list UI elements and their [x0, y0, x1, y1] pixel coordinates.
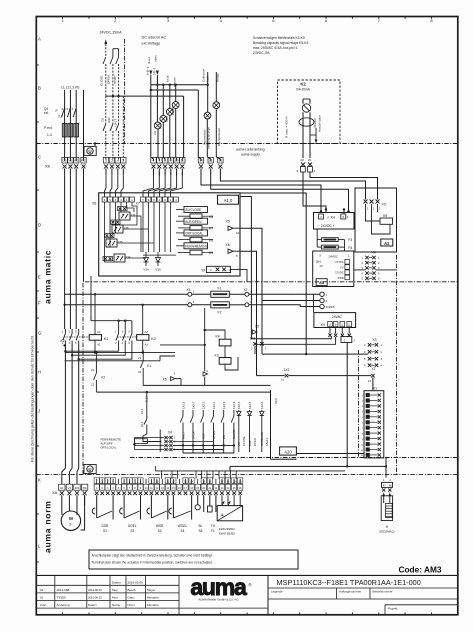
- svg-text:3/4/5/6: 3/4/5/6: [326, 305, 336, 309]
- svg-text:PWB: PWB: [338, 276, 344, 280]
- svg-text:XH: XH: [321, 323, 326, 327]
- svg-text:10: 10: [175, 159, 179, 163]
- svg-text:X3: X3: [372, 338, 376, 342]
- svg-text:ext.Voltage: ext.Voltage: [142, 41, 161, 45]
- svg-text:K1: K1: [147, 364, 151, 368]
- svg-text:10,2: 10,2: [140, 421, 144, 427]
- svg-text:DC oder/or AC: DC oder/or AC: [142, 36, 167, 40]
- svg-text:X5: X5: [163, 377, 167, 381]
- svg-text:F4: F4: [348, 246, 352, 250]
- svg-text:ORT/LOCAL: ORT/LOCAL: [185, 232, 203, 236]
- svg-text:1X2,8: 1X2,8: [181, 401, 185, 409]
- svg-text:auma norm: auma norm: [43, 500, 53, 553]
- svg-text:Projekt: Projekt: [388, 607, 398, 611]
- svg-text:1X2,2: 1X2,2: [212, 401, 216, 409]
- svg-text:W1: W1: [74, 159, 79, 163]
- svg-text:2014-08-04: 2014-08-04: [88, 588, 102, 592]
- svg-text:1X2,9: 1X2,9: [232, 401, 236, 409]
- svg-text:21: 21: [91, 368, 95, 372]
- svg-text:Montaire: Montaire: [147, 603, 159, 607]
- svg-text:S1: S1: [103, 529, 107, 533]
- svg-text:XK: XK: [45, 164, 51, 169]
- svg-text:FAULT: FAULT: [265, 437, 269, 446]
- svg-text:F1: F1: [211, 529, 215, 533]
- svg-text:Meyer: Meyer: [147, 588, 155, 592]
- svg-text:PE: PE: [81, 159, 85, 163]
- svg-text:17VDC: 17VDC: [335, 271, 343, 275]
- svg-text:K8: K8: [209, 215, 213, 219]
- svg-text:TH: TH: [211, 524, 216, 528]
- svg-text:Änderung: Änderung: [57, 603, 70, 607]
- svg-text:24: 24: [308, 158, 312, 162]
- svg-text:A8: A8: [319, 280, 325, 285]
- svg-text:STOP: STOP: [191, 431, 195, 439]
- svg-text:auma-Lieferumfang: auma-Lieferumfang: [236, 148, 265, 152]
- svg-text:2014-088: 2014-088: [57, 588, 70, 592]
- svg-text:X5: X5: [255, 325, 259, 329]
- svg-text:close: close: [147, 56, 151, 64]
- svg-text:X1: X1: [187, 288, 191, 292]
- svg-text:733/09: 733/09: [57, 596, 67, 600]
- svg-text:FERN/REMOTE: FERN/REMOTE: [185, 244, 208, 248]
- svg-text:1X2,4: 1X2,4: [237, 401, 241, 409]
- svg-text:2016-05-06: 2016-05-06: [128, 580, 144, 584]
- svg-text:AUF: AUF: [107, 117, 111, 123]
- svg-text:meldung/anzeige: meldung/anzeige: [206, 127, 210, 149]
- svg-text:R max. = 600 R: R max. = 600 R: [285, 116, 289, 138]
- svg-text:(+)(~): (+)(~): [146, 67, 150, 75]
- svg-text:ZU: ZU: [100, 118, 104, 122]
- svg-text:Zust.: Zust.: [40, 603, 47, 607]
- svg-text:1X2,6: 1X2,6: [260, 401, 264, 409]
- svg-text:EWG B1/B2: EWG B1/B2: [219, 531, 236, 535]
- svg-text:HALT: HALT: [181, 432, 185, 439]
- svg-text:A20: A20: [284, 450, 292, 455]
- svg-text:A2: A2: [145, 330, 149, 334]
- svg-text:1X2,7: 1X2,7: [191, 401, 195, 409]
- svg-text:Auftragsnummer: Auftragsnummer: [339, 590, 361, 594]
- svg-text:OPEN: OPEN: [212, 431, 216, 439]
- svg-text:K2: K2: [300, 82, 306, 87]
- svg-text:Actual value: Actual value: [318, 115, 322, 132]
- svg-text:Code: AM3: Code: AM3: [398, 564, 441, 574]
- svg-text:XA: XA: [52, 490, 58, 495]
- svg-text:Mey: Mey: [112, 588, 118, 592]
- svg-text:STOP: STOP: [113, 76, 117, 84]
- svg-text:B: B: [38, 86, 41, 91]
- svg-text:A1: A1: [145, 342, 149, 346]
- svg-text:S3: S3: [158, 529, 162, 533]
- svg-text:K7: K7: [209, 227, 213, 231]
- svg-text:22: 22: [138, 370, 142, 374]
- svg-text:Name: Name: [112, 603, 120, 607]
- svg-text:K9: K9: [383, 214, 387, 218]
- svg-text:X7: X7: [136, 202, 140, 206]
- svg-text:ZU: ZU: [153, 131, 157, 135]
- svg-text:Bestellnummer: Bestellnummer: [373, 590, 393, 594]
- svg-text:X4: X4: [372, 251, 376, 255]
- svg-text:X2: X2: [372, 367, 376, 371]
- svg-text:CLOSE: CLOSE: [232, 429, 236, 439]
- svg-text:AUMA Riester GmbH & Co. KG: AUMA Riester GmbH & Co. KG: [198, 598, 239, 602]
- svg-text:DSR: DSR: [102, 524, 109, 528]
- svg-text:Terminal plan shows the actuat: Terminal plan shows the actuator in inte…: [92, 561, 213, 565]
- svg-text:(R230VAC): (R230VAC): [379, 530, 394, 534]
- svg-text:V1: V1: [68, 486, 72, 490]
- svg-text:Schaltvermögen Melderelais K5-: Schaltvermögen Melderelais K5-K9: [253, 36, 305, 40]
- svg-text:ORT/LOCAL: ORT/LOCAL: [101, 445, 117, 449]
- svg-text:03: 03: [40, 588, 44, 592]
- svg-text:W1: W1: [75, 486, 80, 490]
- svg-text:24VDC /2A: 24VDC /2A: [253, 51, 270, 55]
- svg-text:1X2,5: 1X2,5: [248, 401, 252, 409]
- svg-text:max. 250VAC /0.5A /cos phi=1: max. 250VAC /0.5A /cos phi=1: [253, 46, 298, 50]
- svg-text:H: H: [38, 370, 41, 375]
- svg-text:M: M: [69, 516, 73, 521]
- svg-text:K3: K3: [215, 354, 219, 358]
- svg-text:K: K: [38, 478, 41, 483]
- svg-text:Datum: Datum: [112, 580, 121, 584]
- svg-text:21: 21: [138, 356, 142, 360]
- svg-text:Legende: Legende: [271, 590, 283, 594]
- svg-text:11: 11: [181, 159, 184, 163]
- svg-text:S4: S4: [181, 529, 185, 533]
- svg-text:X2: X2: [244, 288, 248, 292]
- svg-text:Montaire: Montaire: [147, 596, 159, 600]
- svg-text:− 24VDC +: − 24VDC +: [318, 224, 335, 228]
- svg-text:FWG/RWG/: FWG/RWG/: [219, 527, 235, 531]
- svg-text:local: local: [166, 75, 170, 82]
- svg-text:S5: S5: [198, 529, 202, 533]
- svg-text:A: A: [38, 37, 41, 42]
- svg-text:S0,9: S0,9: [274, 398, 278, 404]
- svg-text:U1: U1: [60, 486, 64, 490]
- svg-text:Mon: Mon: [112, 596, 118, 600]
- svg-text:17VDC: 17VDC: [335, 260, 343, 264]
- svg-text:ORT: ORT: [165, 115, 169, 121]
- svg-text:G: G: [38, 331, 41, 336]
- svg-text:Anschlußplan zeigt den Stellan: Anschlußplan zeigt den Stellantrieb in Z…: [92, 554, 213, 558]
- svg-text:K4: K4: [216, 335, 220, 339]
- svg-text:K6: K6: [209, 238, 213, 242]
- svg-text:XH: XH: [331, 216, 336, 220]
- svg-text:2010-06-15: 2010-06-15: [88, 596, 102, 600]
- svg-text:WOEL: WOEL: [178, 524, 188, 528]
- svg-text:X6: X6: [226, 243, 230, 247]
- svg-text:1X2: 1X2: [284, 368, 290, 372]
- svg-text:F: F: [328, 216, 330, 220]
- svg-text:ext.: ext.: [44, 111, 49, 115]
- svg-text:Betriebsbereit: Betriebsbereit: [217, 128, 221, 146]
- svg-text:auma-supply: auma-supply: [241, 153, 260, 157]
- svg-text:V1: V1: [69, 159, 73, 163]
- svg-text:auma: auma: [190, 574, 247, 600]
- svg-text:(-)(~): (-)(~): [152, 68, 156, 75]
- svg-text:FERN: FERN: [171, 107, 175, 115]
- svg-text:XO: XO: [382, 203, 387, 207]
- svg-text:DOEL: DOEL: [128, 524, 137, 528]
- svg-text:V14: V14: [143, 268, 149, 272]
- svg-text:0/4-20mA: 0/4-20mA: [296, 88, 311, 92]
- svg-text:Bearb.: Bearb.: [128, 588, 137, 592]
- svg-text:K2: K2: [151, 337, 156, 341]
- svg-text:X8: X8: [92, 202, 96, 206]
- svg-text:V15: V15: [155, 268, 161, 272]
- svg-text:OPEN: OPEN: [253, 438, 257, 446]
- svg-text:10,2: 10,2: [140, 408, 144, 414]
- svg-text:K2: K2: [61, 339, 65, 343]
- svg-text:24VDC,15mA: 24VDC,15mA: [100, 31, 123, 35]
- svg-text:K5: K5: [209, 251, 213, 255]
- svg-text:P ext.: P ext.: [44, 126, 53, 130]
- svg-text:24VDC: 24VDC: [328, 255, 339, 259]
- svg-text:AUF/OPEN: AUF/OPEN: [185, 220, 202, 224]
- svg-text:1X2,3: 1X2,3: [222, 401, 226, 409]
- svg-text:10: 10: [236, 231, 240, 235]
- svg-text:S2: S2: [130, 529, 134, 533]
- svg-text:F: F: [38, 301, 41, 306]
- svg-text:X5: X5: [226, 220, 230, 224]
- svg-text:X9: X9: [201, 269, 205, 273]
- svg-text:CLOSE: CLOSE: [99, 76, 103, 87]
- svg-text:0V: 0V: [340, 265, 343, 269]
- svg-text:X1: X1: [373, 386, 377, 390]
- svg-text:24VAC: 24VAC: [332, 315, 343, 319]
- svg-text:J: J: [38, 409, 40, 414]
- svg-text:A2: A2: [384, 241, 390, 246]
- svg-text:23: 23: [300, 158, 304, 162]
- svg-text:C: C: [38, 155, 41, 160]
- svg-text:L1 L2 L3 PE: L1 L2 L3 PE: [61, 86, 80, 90]
- svg-text:1X3: 1X3: [250, 336, 256, 340]
- svg-text:A1: A1: [97, 342, 101, 346]
- svg-text:AUF: AUF: [202, 433, 206, 439]
- svg-text:22: 22: [91, 383, 95, 387]
- svg-text:Breaking capacity signal relay: Breaking capacity signal relays K5-K9: [253, 41, 309, 45]
- svg-text:ZU/CLOSE: ZU/CLOSE: [185, 208, 201, 212]
- svg-text:WSR: WSR: [156, 524, 164, 528]
- svg-text:1-3: 1-3: [47, 133, 52, 137]
- svg-text:E: E: [38, 275, 41, 280]
- svg-text:A2: A2: [97, 330, 101, 334]
- svg-text:ZU: ZU: [222, 435, 226, 439]
- svg-text:10: 10: [319, 264, 323, 268]
- svg-text:A1,0: A1,0: [224, 198, 233, 203]
- svg-text:✳: ✳: [220, 513, 224, 519]
- svg-text:Datum: Datum: [88, 603, 97, 607]
- svg-text:U1: U1: [63, 159, 67, 163]
- svg-text:Für diese Zeichnung gelten die: Für diese Zeichnung gelten die Bedingung…: [31, 335, 35, 462]
- svg-text:open: open: [154, 55, 158, 62]
- svg-text:15: 15: [209, 159, 213, 163]
- svg-text:1X2,1: 1X2,1: [202, 401, 206, 409]
- svg-text:BL: BL: [198, 524, 202, 528]
- svg-text:Gepr.: Gepr.: [128, 596, 136, 600]
- svg-text:OPEN: OPEN: [106, 75, 110, 84]
- svg-text:F1: F1: [218, 286, 222, 290]
- svg-text:F2: F2: [218, 311, 222, 315]
- svg-text:3~: 3~: [69, 522, 73, 526]
- svg-text:F3: F3: [348, 238, 352, 242]
- svg-text:HALT: HALT: [113, 119, 117, 127]
- svg-text:K1: K1: [104, 337, 109, 341]
- svg-text:AUF: AUF: [159, 123, 163, 129]
- svg-text:PE: PE: [83, 486, 87, 490]
- svg-text:X4: X4: [168, 431, 172, 435]
- svg-text:auma matic: auma matic: [43, 250, 53, 304]
- svg-text:0,1: 0,1: [58, 115, 63, 119]
- svg-text:CLOSE: CLOSE: [242, 436, 246, 446]
- svg-text:01: 01: [40, 596, 44, 600]
- svg-text:16: 16: [219, 159, 223, 163]
- svg-text:Norm: Norm: [128, 603, 136, 607]
- svg-text:14: 14: [199, 159, 203, 163]
- svg-text:D: D: [38, 223, 41, 228]
- svg-text:K2: K2: [101, 376, 105, 380]
- svg-text:MSP1110KC3--F18E1 TPA00R1AA-1E: MSP1110KC3--F18E1 TPA00R1AA-1E1-000: [277, 578, 421, 587]
